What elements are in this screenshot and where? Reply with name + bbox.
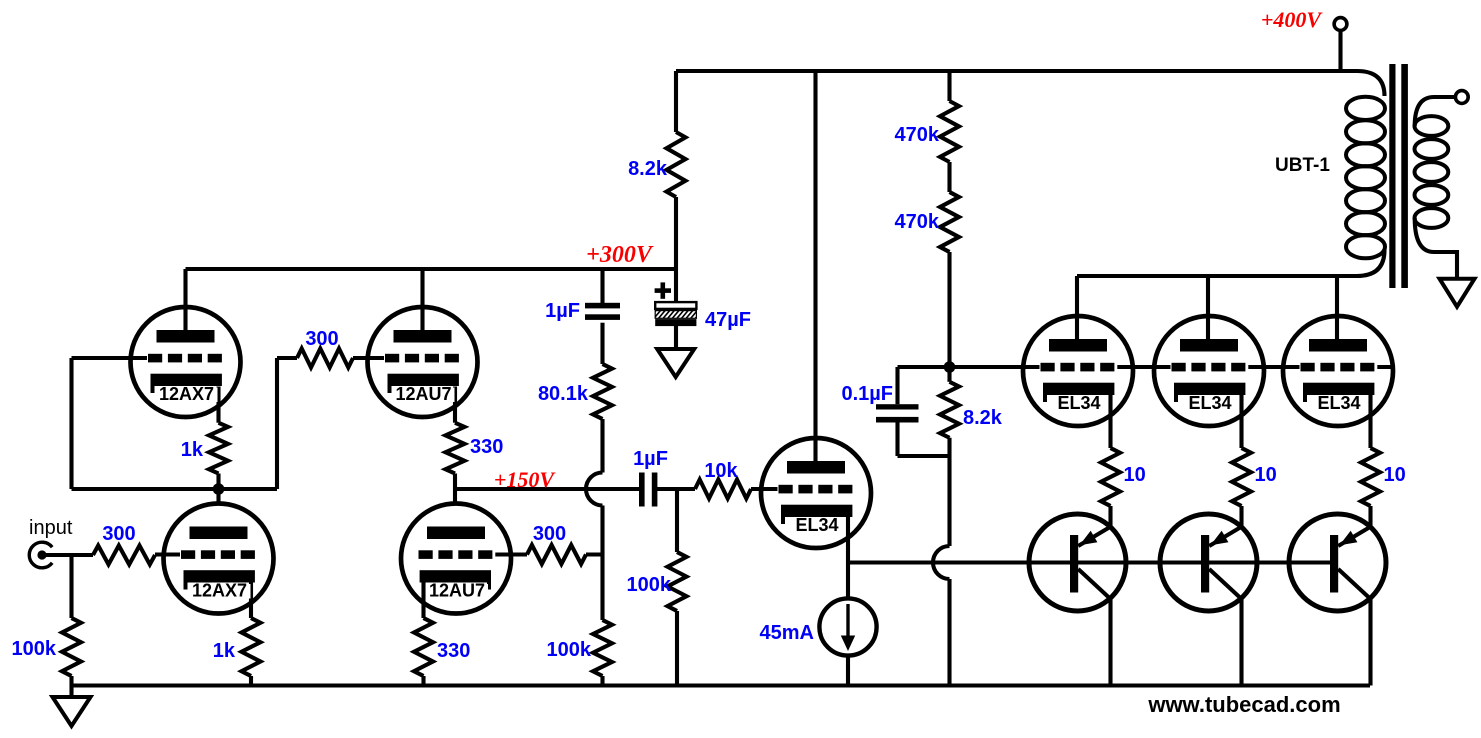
- label 100k R12: [627, 574, 672, 596]
- svg-text:1µF: 1µF: [545, 300, 580, 322]
- transformer T1 core: [1389, 64, 1408, 288]
- label 10 R19: [1384, 464, 1406, 486]
- wire R13 to EL34 driver grid: [751, 487, 779, 491]
- wire driver cathode rail to transistor bases: [848, 560, 1336, 564]
- capacitor C2 47uF electrolytic: [655, 282, 697, 326]
- wire input jack to grid resistor: [46, 553, 93, 557]
- wire node-A corner to R4: [277, 356, 297, 360]
- wire +300V node to 47uF: [674, 269, 678, 302]
- svg-text:+400V: +400V: [1261, 7, 1324, 32]
- label 300 R4: [305, 328, 338, 350]
- resistor R18 10 ohm cathode EL34 #2: [1232, 448, 1251, 506]
- wire R4 to upper 12AU7 grid: [353, 356, 386, 360]
- resistor R7 300 grid lower 12AU7: [527, 545, 586, 564]
- resistor R13 10k driver grid stopper: [695, 480, 751, 499]
- svg-text:300: 300: [102, 523, 135, 545]
- wire driver cathode down: [846, 517, 850, 599]
- svg-text:EL34: EL34: [1317, 393, 1360, 413]
- label +400V: [1261, 7, 1324, 32]
- wire secondary bottom to ground: [1415, 218, 1457, 279]
- wire down to 0.1uF: [895, 367, 899, 404]
- wire lower-12AU7 cathode to 330: [421, 583, 425, 619]
- svg-text:100k: 100k: [547, 639, 592, 661]
- resistor R19 10 ohm cathode EL34 #3: [1361, 448, 1380, 506]
- wire output-tube plate rail to transformer primary bottom: [1077, 250, 1385, 276]
- svg-text:+150V: +150V: [494, 467, 557, 492]
- label 1uF C1: [545, 300, 580, 322]
- wire upper-12AU7 cathode to 330: [453, 387, 457, 423]
- transistor Q1 PNP: [1029, 514, 1126, 611]
- label UBT-1: [1275, 155, 1330, 176]
- resistor R9 8.2k plate load: [667, 132, 686, 197]
- wire lower-12AU7 plate to +150V node: [453, 489, 457, 504]
- svg-text:12AX7: 12AX7: [159, 384, 214, 404]
- label 80.1k R10: [538, 383, 589, 405]
- label +300V: [586, 242, 654, 268]
- label 10k R13: [704, 460, 738, 482]
- wire C2 to ground: [674, 326, 678, 350]
- wire +300V rail: [186, 267, 677, 271]
- wire R16 down, hop over cathode rail, to ground rail: [933, 438, 950, 686]
- transistor Q3 PNP: [1289, 514, 1386, 611]
- svg-text:45mA: 45mA: [760, 622, 814, 644]
- svg-text:100k: 100k: [627, 574, 672, 596]
- wire +300V to 1uF filter cap: [600, 269, 604, 306]
- pentode V6 EL34 output #1: [1023, 316, 1133, 426]
- resistor R16 8.2k: [940, 382, 959, 438]
- wire EL34 #1 cathode to 10 ohm: [1108, 395, 1112, 448]
- svg-text:EL34: EL34: [1188, 393, 1231, 413]
- svg-text:330: 330: [437, 640, 470, 662]
- label 45mA I1: [760, 622, 814, 644]
- svg-text:12AU7: 12AU7: [395, 384, 451, 404]
- wire divider node down to 8.2k: [947, 367, 951, 382]
- resistor R8 330 cathode lower 12AU7: [414, 618, 433, 676]
- label input: [29, 517, 73, 539]
- svg-text:10: 10: [1384, 464, 1406, 486]
- wire to upper 12AX7 grid: [72, 356, 182, 360]
- triode V2 12AX7 upper: [131, 307, 241, 417]
- svg-text:10k: 10k: [704, 460, 738, 482]
- wire R11 to ground rail: [600, 676, 604, 686]
- resistor R17 10 ohm cathode EL34 #1: [1101, 448, 1120, 506]
- label 470k R15: [895, 211, 940, 233]
- triode V4 12AU7 lower: [401, 504, 511, 614]
- label 330 R6: [470, 436, 503, 458]
- input jack J1: [29, 542, 52, 568]
- label 10 R18: [1255, 464, 1277, 486]
- svg-text:300: 300: [533, 523, 566, 545]
- ground 47uF: [657, 349, 694, 377]
- wire EL34 #2 cathode to 10 ohm: [1239, 395, 1243, 448]
- wire transistor Q2 collector to ground rail: [1239, 599, 1243, 686]
- wire R12 to ground rail: [675, 611, 679, 686]
- svg-text:330: 330: [470, 436, 503, 458]
- pentode V5 EL34 driver: [761, 438, 871, 548]
- resistor R6 330 cathode upper 12AU7: [446, 423, 465, 474]
- svg-text:12AX7: 12AX7: [192, 581, 247, 601]
- svg-text:12AU7: 12AU7: [429, 581, 485, 601]
- svg-text:8.2k: 8.2k: [963, 407, 1003, 429]
- wire plate rail down to output EL34 #3: [1335, 276, 1339, 339]
- wire upper-12AU7 plate to +300V: [420, 269, 424, 330]
- svg-text:47µF: 47µF: [705, 309, 751, 331]
- label 470k R14: [895, 124, 940, 146]
- transistor Q2 PNP: [1160, 514, 1257, 611]
- transformer T1 primary winding: [1346, 97, 1385, 258]
- label 1uF C3: [633, 448, 668, 470]
- svg-text:470k: 470k: [895, 211, 940, 233]
- label 8.2k R16: [963, 407, 1003, 429]
- svg-text:300: 300: [305, 328, 338, 350]
- svg-text:1k: 1k: [213, 640, 236, 662]
- wire R10 down to feedback node, hop over +150V wire: [586, 419, 603, 620]
- wire plate rail down to output EL34 #2: [1206, 276, 1210, 339]
- wire R3 to ground rail: [249, 676, 253, 686]
- resistor R5 1k cathode upper 12AX7: [209, 423, 228, 474]
- node divider junction dot: [944, 361, 956, 373]
- wire B+ top rail from 8.2k to output transformer primary: [676, 71, 1385, 96]
- svg-text:80.1k: 80.1k: [538, 383, 589, 405]
- node A junction dot: [213, 483, 225, 495]
- label 100k R2: [12, 638, 57, 660]
- wire lower-12AU7 grid to 300: [493, 552, 527, 556]
- wire input node down to 100k: [69, 555, 73, 618]
- svg-text:470k: 470k: [895, 124, 940, 146]
- wire R15 down to divider node: [947, 252, 951, 367]
- wire divider node left to 0.1uF: [898, 365, 950, 369]
- wire transistor Q3 collector to ground rail: [1368, 599, 1372, 686]
- wire 10 ohm to transistor Q1 emitter: [1108, 506, 1112, 527]
- svg-text:EL34: EL34: [1057, 393, 1100, 413]
- label 300 R1: [102, 523, 135, 545]
- wire secondary top to output terminal: [1415, 97, 1456, 126]
- wire ground bus bottom rail: [70, 683, 1371, 687]
- resistor R10 80.1k feedback: [593, 364, 612, 419]
- wire R2 to ground rail: [69, 676, 73, 698]
- svg-text:EL34: EL34: [795, 515, 838, 535]
- wire current source to ground rail: [846, 656, 850, 686]
- wire +150V rail from node to coupling cap: [455, 487, 642, 491]
- wire R6 to +150V node: [453, 474, 457, 490]
- label 300 R7: [533, 523, 566, 545]
- label 0.1uF C4: [841, 383, 893, 405]
- svg-text:0.1µF: 0.1µF: [841, 383, 893, 405]
- wire upper-12AX7 plate to +300V: [183, 269, 187, 330]
- current source I1 45mA: [819, 598, 876, 655]
- wire B+ terminal to primary top: [1338, 31, 1342, 72]
- wire lower-12AX7 plate to node A: [216, 489, 220, 504]
- wire R1 to 12AX7 grid: [155, 552, 182, 556]
- wire C3 to 10k node: [655, 487, 695, 491]
- svg-text:1µF: 1µF: [633, 448, 668, 470]
- wire top rail down to 470k: [947, 71, 951, 101]
- label 100k R11: [547, 639, 592, 661]
- svg-text:+300V: +300V: [586, 242, 654, 268]
- capacitor C4 0.1uF: [876, 404, 919, 422]
- wire upper-12AX7 cathode to 1k: [216, 387, 220, 423]
- B+ terminal: [1334, 18, 1347, 31]
- wire R7 to feedback node: [586, 552, 603, 556]
- label +150V: [494, 467, 557, 492]
- ground secondary: [1440, 279, 1475, 307]
- wire R8 to ground rail: [421, 676, 425, 686]
- wire R14 to R15: [947, 162, 951, 192]
- ground input: [53, 697, 91, 726]
- wire transistor Q1 collector to ground rail: [1108, 599, 1112, 686]
- capacitor C1 1uF filter: [585, 303, 620, 320]
- wire EL34 #3 cathode to 10 ohm: [1368, 395, 1372, 448]
- label 1k R3: [213, 640, 236, 662]
- label 8.2k R9: [628, 158, 668, 180]
- label 47uF C2: [705, 309, 751, 331]
- resistor R15 470k lower: [940, 192, 959, 252]
- triode V1 12AX7 lower: [164, 504, 274, 614]
- wire node down to 100k grid leak: [675, 489, 679, 552]
- wire R9 to +300V node: [674, 197, 678, 269]
- wire left branch up to upper 12AX7 grid: [69, 358, 73, 489]
- transformer T1 secondary winding: [1415, 116, 1449, 228]
- wire C1 to 80.1k: [600, 323, 604, 364]
- pentode V8 EL34 output #3: [1283, 316, 1393, 426]
- svg-text:8.2k: 8.2k: [628, 158, 668, 180]
- wire R5 to node A: [216, 474, 220, 490]
- wire 10 ohm to transistor Q2 emitter: [1239, 506, 1243, 527]
- label 330 R8: [437, 640, 470, 662]
- pentode V7 EL34 output #2: [1154, 316, 1264, 426]
- svg-text:www.tubecad.com: www.tubecad.com: [1147, 692, 1340, 717]
- label 10 R17: [1124, 464, 1146, 486]
- resistor R4 300 interstage: [297, 349, 353, 368]
- wire top rail down to driver plate: [813, 71, 817, 461]
- wire right branch up to 300: [275, 358, 279, 489]
- svg-text:UBT-1: UBT-1: [1275, 155, 1330, 176]
- svg-text:input: input: [29, 517, 73, 539]
- output terminal: [1455, 91, 1468, 104]
- wire 10 ohm to transistor Q3 emitter: [1368, 506, 1372, 527]
- resistor R14 470k upper: [940, 101, 959, 162]
- resistor R12 100k driver grid leak: [668, 552, 687, 611]
- capacitor C3 1uF coupling: [639, 473, 657, 507]
- resistor R3 1k cathode lower 12AX7: [242, 618, 261, 676]
- label www.tubecad.com: [1147, 692, 1340, 717]
- resistor R2 100k input load: [62, 618, 81, 676]
- wire top rail down to 8.2k: [674, 71, 678, 132]
- wire plate rail down to output EL34 #1: [1075, 276, 1079, 339]
- triode V3 12AU7 upper: [368, 307, 478, 417]
- wire node-A horizontal (upper grid loop): [72, 487, 278, 491]
- resistor R11 100k feedback lower: [593, 620, 612, 676]
- svg-text:10: 10: [1124, 464, 1146, 486]
- wire 0.1uF to 8.2k bottom: [898, 423, 950, 457]
- label 1k R5: [181, 439, 204, 461]
- svg-text:1k: 1k: [181, 439, 204, 461]
- wire output-tube grid rail from divider node: [950, 365, 1391, 369]
- svg-text:10: 10: [1255, 464, 1277, 486]
- resistor R1 300 input grid stopper: [93, 546, 155, 565]
- svg-text:100k: 100k: [12, 638, 57, 660]
- wire lower-12AX7 cathode to 1k: [249, 583, 253, 619]
